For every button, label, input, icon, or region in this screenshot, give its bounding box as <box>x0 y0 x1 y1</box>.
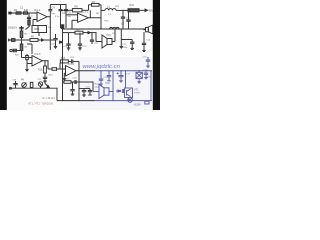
svg-text:≈220V: ≈220V <box>134 102 142 106</box>
svg-text:IC: LM324: IC: LM324 <box>42 96 55 100</box>
svg-text:R1: R1 <box>14 8 18 12</box>
svg-text:100kΩ/V: 100kΩ/V <box>8 27 18 30</box>
svg-text:10μ: 10μ <box>68 16 71 18</box>
svg-text:IC1-4: IC1-4 <box>68 63 75 66</box>
svg-text:YD1: YD1 <box>106 34 111 37</box>
svg-text:R13: R13 <box>61 57 66 60</box>
svg-text:RP1: RP1 <box>35 28 40 31</box>
svg-text:R7: R7 <box>92 0 96 4</box>
svg-text:100μ: 100μ <box>147 76 152 78</box>
svg-text:IC1-1: IC1-1 <box>34 8 41 12</box>
svg-text:PA: PA <box>21 79 24 82</box>
svg-text:C3: C3 <box>62 11 66 15</box>
svg-text:IC1-2: IC1-2 <box>82 9 89 13</box>
svg-text:C5: C5 <box>68 11 72 15</box>
svg-text:www.jqdzlc.cn: www.jqdzlc.cn <box>83 64 121 70</box>
svg-text:R5: R5 <box>75 5 79 9</box>
svg-text:IC1-3: IC1-3 <box>35 53 42 56</box>
svg-text:VT1, VT2: TDA2030: VT1, VT2: TDA2030 <box>28 102 54 106</box>
svg-text:VT2: VT2 <box>134 88 139 91</box>
svg-text:0.1μ: 0.1μ <box>95 87 99 89</box>
svg-text:4.7μ: 4.7μ <box>55 16 59 18</box>
svg-text:R18: R18 <box>130 4 135 7</box>
svg-text:R16: R16 <box>38 69 43 72</box>
svg-text:470μ: 470μ <box>122 47 128 49</box>
svg-text:C4: C4 <box>52 6 56 10</box>
svg-text:TIP41: TIP41 <box>134 93 141 95</box>
svg-text:YD2: YD2 <box>105 82 110 85</box>
svg-text:35V: 35V <box>149 8 154 12</box>
